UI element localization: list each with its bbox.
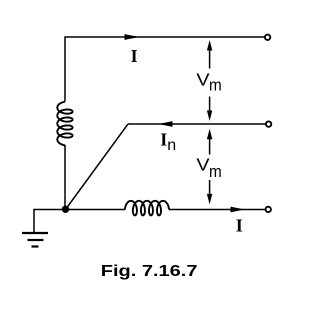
svg-text:n: n <box>167 137 176 154</box>
arrow: Vm upper down-arrow <box>207 97 212 122</box>
node junction dot <box>62 206 69 213</box>
arrow: Vm lower up-arrow <box>207 129 212 155</box>
wire: left vertical lower segment <box>64 145 66 209</box>
wire: middle horizontal <box>128 123 265 125</box>
svg-text:Fig. 7.16.7: Fig. 7.16.7 <box>101 262 198 279</box>
terminal (top right) <box>265 35 270 40</box>
arrow: current In on middle wire (left) <box>158 121 172 127</box>
arrow: Vm upper up-arrow <box>207 40 212 69</box>
terminal (middle right) <box>266 121 271 126</box>
wire: bottom horizontal from junction to right terminal <box>66 209 126 211</box>
svg-text:m: m <box>209 76 222 95</box>
ground <box>22 233 48 247</box>
wire: bottom right segment <box>169 209 265 211</box>
inductor L2 (bottom horizontal coil) <box>125 201 169 216</box>
svg-text:I: I <box>236 215 243 235</box>
wire: diagonal from junction to middle wire corner <box>66 124 129 210</box>
svg-text:I: I <box>160 129 167 149</box>
svg-text:I: I <box>131 46 138 66</box>
arrow: Vm lower down-arrow <box>207 180 212 204</box>
arrow: current I on top wire (right) <box>125 34 140 40</box>
wire: ground stub left + down <box>34 210 66 234</box>
terminal (bottom right) <box>266 207 271 212</box>
inductor L1 (left vertical coil) <box>57 102 72 146</box>
arrow: current I on bottom wire (right) <box>231 207 245 213</box>
svg-text:m: m <box>209 162 222 181</box>
wire: top horizontal from left corner to right terminal <box>65 37 264 102</box>
